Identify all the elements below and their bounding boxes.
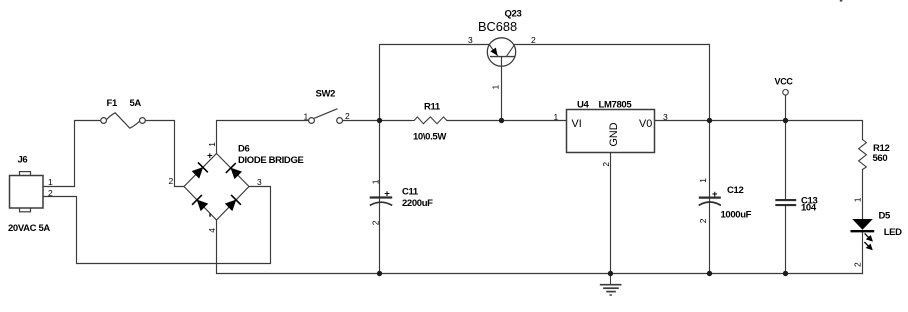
svg-text:5A: 5A — [130, 98, 142, 109]
svg-text:DIODE BRIDGE: DIODE BRIDGE — [238, 155, 303, 166]
svg-text:2: 2 — [601, 162, 611, 167]
svg-text:J6: J6 — [18, 155, 28, 166]
svg-text:+: + — [712, 189, 718, 200]
svg-text:3: 3 — [257, 177, 262, 187]
svg-text:2: 2 — [48, 188, 53, 198]
svg-text:10\0.5W: 10\0.5W — [413, 132, 446, 143]
svg-text:104: 104 — [801, 202, 817, 213]
svg-text:V0: V0 — [639, 118, 652, 130]
svg-text:D6: D6 — [238, 144, 250, 155]
svg-text:C12: C12 — [727, 185, 743, 196]
svg-text:3: 3 — [468, 35, 473, 45]
svg-text:2200uF: 2200uF — [402, 198, 433, 209]
svg-text:LED: LED — [884, 227, 902, 238]
svg-text:2: 2 — [852, 262, 862, 267]
svg-text:+: + — [384, 188, 390, 199]
svg-text:GND: GND — [608, 122, 620, 146]
svg-text:1: 1 — [207, 142, 217, 147]
svg-text:D5: D5 — [879, 210, 892, 221]
svg-text:U4: U4 — [577, 99, 590, 110]
svg-text:2: 2 — [698, 218, 708, 223]
svg-text:LM7805: LM7805 — [599, 99, 633, 110]
svg-text:VCC: VCC — [775, 77, 794, 87]
svg-text:2: 2 — [169, 176, 174, 186]
svg-text:1: 1 — [698, 178, 708, 183]
svg-text:2: 2 — [531, 35, 536, 45]
svg-text:3: 3 — [663, 112, 668, 122]
svg-text:1000uF: 1000uF — [721, 210, 752, 221]
svg-text:BC688: BC688 — [478, 19, 517, 34]
svg-text:SW2: SW2 — [316, 89, 336, 100]
svg-text:1: 1 — [48, 177, 53, 187]
svg-text:1: 1 — [491, 85, 501, 90]
svg-text:Q23: Q23 — [505, 9, 522, 20]
svg-text:560: 560 — [873, 153, 888, 164]
svg-text:4: 4 — [207, 228, 217, 233]
svg-text:1: 1 — [304, 112, 309, 122]
svg-text:1: 1 — [852, 197, 862, 202]
svg-text:1: 1 — [371, 179, 381, 184]
svg-text:20VAC 5A: 20VAC 5A — [8, 223, 50, 234]
svg-text:2: 2 — [345, 111, 350, 121]
svg-text:R11: R11 — [424, 101, 441, 112]
svg-text:F1: F1 — [107, 98, 118, 109]
svg-text:VI: VI — [572, 118, 582, 130]
svg-text:+: + — [207, 150, 213, 161]
svg-text:1: 1 — [554, 112, 559, 122]
svg-text:C11: C11 — [402, 186, 419, 197]
svg-text:2: 2 — [371, 220, 381, 225]
